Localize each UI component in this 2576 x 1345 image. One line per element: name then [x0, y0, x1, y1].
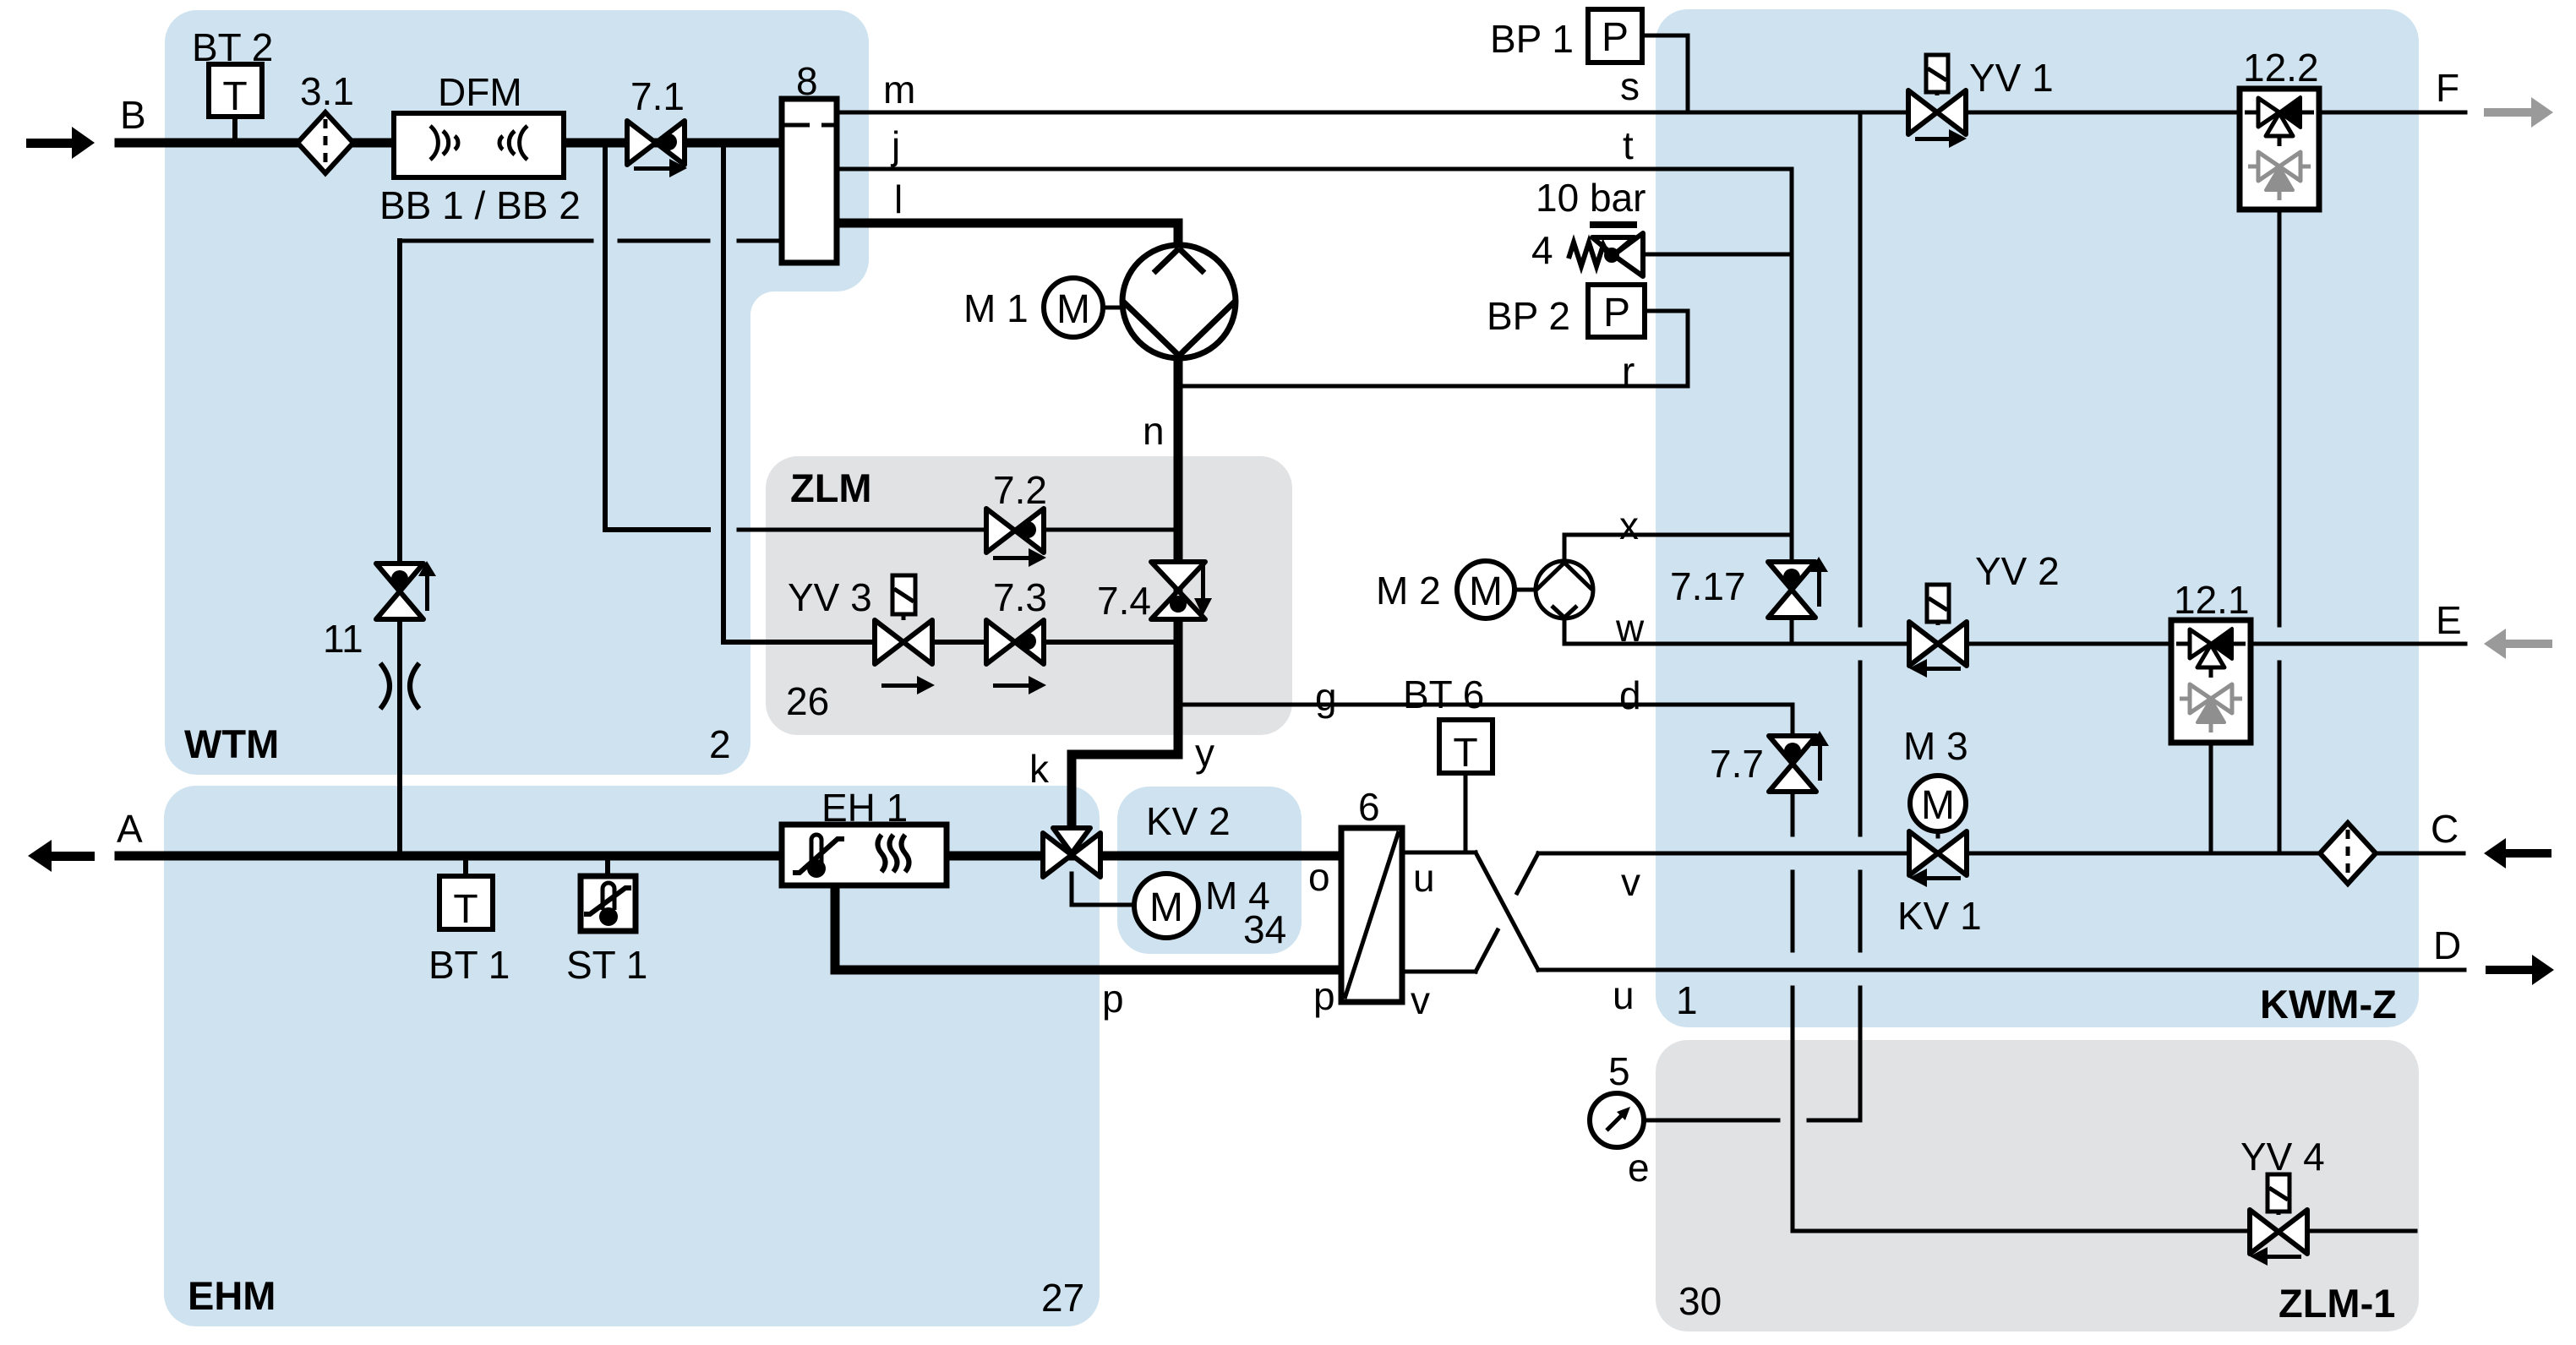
svg-text:P: P: [1602, 15, 1629, 60]
node D outlet arrow: [2486, 955, 2554, 985]
pump M1: [1122, 245, 1236, 358]
svg-text:KV 2: KV 2: [1146, 799, 1231, 843]
node x label: [1619, 504, 1639, 547]
wire long vertical segment 2: [1858, 662, 1863, 835]
svg-text:1: 1: [1676, 978, 1698, 1022]
label DFM: [438, 70, 522, 114]
label M 4: [1205, 874, 1270, 918]
svg-text:27: 27: [1041, 1276, 1084, 1320]
svg-text:A: A: [117, 807, 143, 851]
svg-text:M: M: [1056, 287, 1090, 332]
wire 7.7 down segment 3 to ZLM-1: [1793, 988, 2415, 1231]
svg-text:m: m: [883, 68, 915, 112]
svg-text:p: p: [1102, 977, 1124, 1021]
svg-text:e: e: [1628, 1146, 1650, 1190]
svg-text:u: u: [1413, 856, 1435, 900]
node u label right of exchanger: [1413, 856, 1435, 900]
orifice below valve 11: [380, 663, 419, 709]
node p label left: [1102, 977, 1124, 1021]
label 5: [1608, 1049, 1630, 1093]
separator 8: [782, 99, 837, 263]
valve YV3: [875, 620, 935, 694]
label ST 1: [566, 943, 647, 987]
wire relief valve 4 line: [1642, 253, 1792, 257]
wire v line from exchanger: [1402, 970, 1476, 974]
node m label: [883, 68, 915, 112]
node l label: [894, 177, 903, 221]
wire C line: [1538, 852, 2464, 856]
wire BT1 stem: [463, 858, 468, 876]
label M 2: [1376, 569, 1441, 613]
label BT 1: [428, 943, 510, 987]
label BP 2: [1487, 294, 1570, 338]
solenoid YV3: [892, 575, 915, 620]
label M 3: [1903, 724, 1968, 768]
svg-text:T: T: [222, 74, 247, 119]
label ZLM-1: [2279, 1281, 2395, 1326]
valve YV4: [2250, 1210, 2307, 1266]
svg-text:d: d: [1619, 673, 1641, 717]
label 10 bar: [1536, 176, 1645, 220]
node k label: [1029, 747, 1050, 791]
temperature sensor BT2: [209, 64, 262, 119]
svg-text:BP 2: BP 2: [1487, 294, 1570, 338]
svg-text:M 1: M 1: [963, 286, 1029, 330]
svg-text:k: k: [1029, 747, 1050, 791]
svg-text:YV 4: YV 4: [2240, 1135, 2325, 1179]
svg-text:WTM: WTM: [184, 722, 279, 766]
wire BT6 stem: [1464, 773, 1468, 852]
region ZLM-1 background: [1656, 1040, 2419, 1331]
wire g d line: [1178, 705, 1793, 735]
node A label: [117, 807, 143, 851]
label 7.7: [1710, 742, 1764, 786]
filter 3: [2320, 823, 2376, 884]
svg-text:C: C: [2431, 807, 2459, 851]
node y label: [1195, 731, 1214, 775]
wire branch vertical to YV3 line: [723, 144, 1178, 642]
svg-text:6: 6: [1358, 785, 1380, 829]
node s label: [1620, 64, 1640, 108]
label 2: [709, 722, 731, 766]
wire M2 motor coupling: [1514, 588, 1536, 592]
label 34: [1243, 907, 1286, 951]
svg-text:j: j: [890, 123, 900, 167]
valve 7.17: [1768, 557, 1828, 618]
wire M1 motor coupling: [1103, 306, 1123, 310]
node C inlet arrow: [2484, 838, 2551, 869]
svg-text:KWM-Z: KWM-Z: [2260, 982, 2397, 1026]
label YV 4: [2240, 1135, 2325, 1179]
label 1: [1676, 978, 1698, 1022]
region EHM background: [164, 786, 1100, 1326]
node C label: [2431, 807, 2459, 851]
solenoid YV4: [2268, 1174, 2289, 1215]
label KWM-Z: [2260, 982, 2397, 1026]
label BP 1: [1490, 17, 1574, 61]
svg-text:n: n: [1143, 409, 1165, 453]
label 30: [1678, 1279, 1722, 1323]
svg-text:7.3: 7.3: [993, 575, 1047, 619]
node t label: [1623, 123, 1634, 167]
svg-text:30: 30: [1678, 1279, 1722, 1323]
node A outlet arrow: [28, 840, 95, 872]
filter 3.1: [297, 112, 353, 173]
wire E gray arrow: [2484, 629, 2552, 659]
flow meter DFM: [394, 113, 564, 177]
node B label: [120, 93, 146, 137]
label 6: [1358, 785, 1380, 829]
node j label: [890, 123, 900, 167]
valve YV1: [1908, 90, 1967, 148]
node v label below exchanger: [1411, 978, 1430, 1022]
svg-text:ST 1: ST 1: [566, 943, 647, 987]
wire KV2 to M4: [1072, 874, 1134, 905]
svg-text:7.7: 7.7: [1710, 742, 1764, 786]
valve KV1: [1909, 831, 1967, 887]
label 7.4: [1097, 579, 1151, 623]
svg-text:2: 2: [709, 722, 731, 766]
temperature sensor BT6: [1439, 720, 1493, 776]
svg-text:8: 8: [796, 59, 818, 103]
svg-text:u: u: [1613, 973, 1635, 1017]
svg-text:M 3: M 3: [1903, 724, 1968, 768]
solenoid YV1: [1926, 55, 1948, 95]
svg-text:BT 1: BT 1: [428, 943, 510, 987]
wire BP2 r connection: [1178, 311, 1688, 386]
wire gauge 5 line: [1643, 1119, 1778, 1123]
node u label after crossing: [1613, 973, 1635, 1017]
svg-text:EH 1: EH 1: [821, 786, 908, 830]
svg-text:s: s: [1620, 64, 1640, 108]
motor M4 circle: [1134, 874, 1198, 938]
node d label: [1619, 673, 1641, 717]
valve 11: [376, 561, 436, 619]
valve 7.4: [1151, 562, 1212, 619]
label 4: [1531, 228, 1553, 272]
label 8: [796, 59, 818, 103]
svg-text:p: p: [1313, 974, 1335, 1018]
svg-text:F: F: [2436, 66, 2459, 110]
valve 7.2: [986, 509, 1046, 567]
wire j t line: [837, 167, 1792, 172]
label BT 2: [192, 25, 273, 69]
wire 7.7 down segment 1: [1791, 789, 1795, 835]
wire m s F line: [837, 111, 2465, 115]
svg-text:EHM: EHM: [188, 1273, 276, 1318]
svg-text:M: M: [1921, 783, 1955, 828]
wire BT2 stem: [232, 117, 237, 140]
svg-text:7.4: 7.4: [1097, 579, 1151, 623]
valve 7.1: [627, 121, 687, 177]
node n label: [1143, 409, 1165, 453]
wire sensing line segment 2: [619, 239, 708, 243]
svg-text:t: t: [1623, 123, 1634, 167]
heater EH1: [782, 825, 947, 885]
svg-text:ZLM-1: ZLM-1: [2279, 1281, 2395, 1326]
pressure sensor BP2: [1588, 285, 1645, 337]
svg-text:w: w: [1615, 606, 1645, 650]
svg-text:o: o: [1308, 855, 1330, 899]
label 27: [1041, 1276, 1084, 1320]
wire long vertical from s line segment 1: [1858, 112, 1863, 625]
wire x line from pump M2: [1564, 535, 1792, 561]
wire 7.17 bottom stem: [1790, 615, 1794, 644]
wire p line thick from EH1 bottom: [835, 887, 1343, 970]
node g label: [1315, 675, 1337, 719]
thermostat ST1: [581, 876, 636, 931]
svg-text:D: D: [2433, 923, 2461, 967]
motor M2 circle: [1457, 561, 1514, 618]
svg-text:4: 4: [1531, 228, 1553, 272]
node D label: [2433, 923, 2461, 967]
label KV 2: [1146, 799, 1231, 843]
wire valve 11 vertical: [397, 241, 402, 853]
node o label: [1308, 855, 1330, 899]
label M 1: [963, 286, 1029, 330]
wire long vertical segment 4: [1809, 988, 1860, 1120]
wire 7.2 line continuation: [739, 528, 1178, 532]
svg-text:12.2: 12.2: [2243, 46, 2319, 90]
wire t corner vertical down to 7.17: [1790, 169, 1794, 564]
motor M1 circle: [1044, 278, 1103, 337]
valve 7.7: [1769, 731, 1829, 792]
svg-text:M: M: [1149, 885, 1183, 930]
wire F gray arrow: [2484, 97, 2553, 128]
svg-text:P: P: [1603, 291, 1630, 335]
svg-text:y: y: [1195, 731, 1214, 775]
svg-text:T: T: [1453, 731, 1477, 776]
wire 12.1 drain vertical: [2209, 743, 2213, 853]
svg-text:10 bar: 10 bar: [1536, 176, 1645, 220]
wire 12.2 drain vertical segment 2: [2278, 662, 2282, 853]
wire y k elbow thick: [1072, 754, 1178, 828]
node E label: [2436, 598, 2462, 642]
label EH 1: [821, 786, 908, 830]
svg-text:26: 26: [786, 679, 829, 723]
valve YV2: [1909, 622, 1967, 678]
wire BP1 connection: [1642, 35, 1688, 112]
svg-text:BT 6: BT 6: [1403, 672, 1484, 716]
label 26: [786, 679, 829, 723]
wire w E line: [1564, 618, 2465, 644]
valve KV2 three way: [1043, 828, 1100, 877]
solenoid YV2: [1927, 585, 1949, 625]
label 7.17: [1670, 564, 1746, 608]
node p label at exchanger: [1313, 974, 1335, 1018]
wire sensing line from valve 11 to separator 8: [400, 239, 592, 243]
wire long vertical segment 3: [1858, 872, 1863, 950]
svg-text:B: B: [120, 93, 146, 137]
label 11: [323, 617, 363, 661]
svg-text:g: g: [1315, 675, 1337, 719]
label KV 1: [1897, 894, 1982, 938]
svg-text:DFM: DFM: [438, 70, 522, 114]
label EHM: [188, 1273, 276, 1318]
svg-text:BB 1 / BB 2: BB 1 / BB 2: [379, 183, 581, 227]
wire D line: [1538, 968, 2464, 972]
svg-text:M 2: M 2: [1376, 569, 1441, 613]
wire crossing ascending diagonal segment 2: [1517, 853, 1538, 893]
svg-text:YV 2: YV 2: [1975, 549, 2060, 593]
svg-text:x: x: [1619, 504, 1639, 547]
svg-text:ZLM: ZLM: [790, 466, 872, 510]
pump M2: [1536, 561, 1593, 618]
wire sensing line segment 3: [739, 239, 782, 243]
node r label: [1622, 349, 1635, 393]
svg-text:7.2: 7.2: [993, 468, 1047, 512]
wire ST1 stem: [605, 858, 610, 876]
svg-text:BT 2: BT 2: [192, 25, 273, 69]
wire M3 stem: [1936, 830, 1940, 836]
svg-text:YV 1: YV 1: [1969, 56, 2054, 100]
pressure sensor BP1: [1588, 9, 1642, 63]
label ZLM: [790, 466, 872, 510]
svg-text:34: 34: [1243, 907, 1286, 951]
svg-text:M: M: [1469, 569, 1503, 614]
wire crossing descending diagonal: [1476, 852, 1538, 970]
backflow preventer 12.1: [2171, 620, 2251, 743]
svg-text:3.1: 3.1: [300, 69, 354, 113]
label WTM: [184, 722, 279, 766]
region ZLM background: [766, 456, 1292, 735]
motor M3 circle: [1910, 776, 1966, 831]
svg-text:BP 1: BP 1: [1490, 17, 1574, 61]
wire l line thick: [837, 223, 1178, 251]
label 3.1: [300, 69, 354, 113]
wire 12.2 drain vertical segment 1: [2278, 210, 2282, 625]
wire A EH1 KV2 o line thick: [119, 852, 1343, 861]
label BT 6: [1403, 672, 1484, 716]
svg-text:v: v: [1621, 860, 1640, 904]
temperature sensor BT1: [439, 876, 493, 932]
svg-text:v: v: [1411, 978, 1430, 1022]
backflow preventer 12.2: [2240, 89, 2319, 210]
wire u line from exchanger: [1402, 851, 1476, 855]
label 7.2: [993, 468, 1047, 512]
label 7.3: [993, 575, 1047, 619]
region KWM-Z background: [1656, 9, 2419, 1027]
node F label: [2436, 66, 2459, 110]
valve 7.3: [986, 620, 1046, 694]
svg-text:12.1: 12.1: [2174, 578, 2250, 622]
svg-text:E: E: [2436, 598, 2462, 642]
relief valve 4: [1569, 225, 1643, 276]
gauge 5: [1590, 1093, 1644, 1147]
svg-text:r: r: [1622, 349, 1635, 393]
region WTM background: [165, 10, 869, 775]
wire branch vertical to 7.2 line: [605, 144, 708, 530]
wire n vertical thick: [1174, 358, 1183, 754]
svg-text:l: l: [894, 177, 903, 221]
label YV 3: [788, 575, 872, 619]
wire 7.7 down segment 2: [1791, 872, 1795, 950]
wire B main inlet line: [119, 139, 782, 148]
node w label: [1615, 606, 1645, 650]
label YV 2: [1975, 549, 2060, 593]
heat exchanger 6: [1341, 828, 1402, 1002]
label BB 1 / BB 2: [379, 183, 581, 227]
label 12.2: [2243, 46, 2319, 90]
svg-text:YV 3: YV 3: [788, 575, 872, 619]
svg-text:T: T: [453, 887, 478, 932]
label 12.1: [2174, 578, 2250, 622]
svg-text:KV 1: KV 1: [1897, 894, 1982, 938]
svg-text:7.1: 7.1: [630, 74, 685, 118]
wire crossing ascending diagonal segment 1: [1476, 930, 1498, 972]
label YV 1: [1969, 56, 2054, 100]
node e label: [1628, 1146, 1650, 1190]
svg-text:11: 11: [323, 617, 363, 661]
node B inlet arrow: [26, 127, 95, 159]
svg-text:5: 5: [1608, 1049, 1630, 1093]
region KV2 background: [1117, 787, 1302, 954]
node v label after crossing: [1621, 860, 1640, 904]
svg-text:7.17: 7.17: [1670, 564, 1746, 608]
label 7.1: [630, 74, 685, 118]
